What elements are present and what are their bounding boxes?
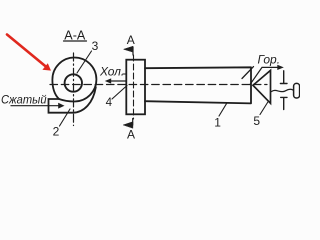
svg-text:Гор.: Гор. bbox=[258, 52, 281, 66]
svg-text:А: А bbox=[127, 127, 135, 141]
svg-text:1: 1 bbox=[214, 115, 221, 129]
svg-text:3: 3 bbox=[92, 39, 99, 53]
svg-text:А: А bbox=[127, 33, 135, 47]
svg-text:Сжатый: Сжатый bbox=[1, 92, 47, 106]
svg-text:2: 2 bbox=[53, 124, 60, 138]
svg-text:Хол.: Хол. bbox=[99, 65, 124, 79]
svg-text:А-А: А-А bbox=[64, 28, 86, 42]
svg-text:5: 5 bbox=[253, 114, 260, 128]
svg-text:4: 4 bbox=[106, 97, 113, 109]
